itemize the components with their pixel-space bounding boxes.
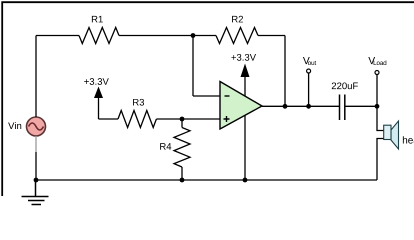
wire: R2 right lead to feedback corner — [258, 35, 285, 37]
node: VLoad junction — [375, 104, 380, 109]
wire: VLoad node down to speaker top terminal — [377, 106, 384, 130]
wire: horizontal into op-amp inverting input — [193, 95, 220, 97]
wire: R4 bottom to ground rail — [181, 167, 183, 180]
op-amp inverting input symbol — [225, 95, 230, 97]
resistor R2 — [216, 28, 258, 44]
power symbol +3.3V (op-amp supply) — [241, 64, 250, 97]
label Vin — [8, 122, 21, 129]
terminal VLoad — [375, 71, 379, 75]
wire: Vin bottom gray probe stub — [35, 136, 37, 152]
wire: +3.3V corner to R3 — [99, 118, 119, 120]
wire: junction down to R4 — [181, 119, 183, 128]
label +3.3V (left) — [84, 78, 109, 85]
label Vout — [303, 57, 316, 65]
node: junction of R1, R2 and inverting input — [191, 33, 196, 38]
label headphone — [403, 136, 414, 145]
wire: op-amp output to capacitor — [262, 105, 340, 107]
resistor R4 — [174, 128, 190, 168]
wire: feedback vertical down to output node — [284, 36, 286, 107]
node: feedback junction on output wire — [283, 104, 288, 109]
wire: R3 to non-inverting input — [156, 118, 220, 120]
label R1 — [92, 16, 103, 23]
source Vin — [27, 117, 46, 136]
label +3.3V (op-amp) — [231, 54, 256, 61]
wire: Vout terminal stub — [308, 73, 310, 106]
label R3 — [133, 99, 144, 106]
wire: top rail from R1 to feedback junction — [119, 35, 193, 37]
wire: junction to R2 — [193, 35, 216, 37]
node: op-amp ground junction on bottom rail — [243, 178, 248, 183]
wire: VLoad terminal stub — [376, 75, 378, 107]
wire: top rail left segment from left rail corner to R1 — [36, 35, 79, 37]
terminal Vout — [307, 69, 311, 73]
ground — [22, 180, 49, 205]
wire: vertical from junction down to inverting input level — [192, 36, 194, 97]
resistor R1 — [79, 28, 119, 44]
capacitor C1 plate right — [344, 95, 346, 121]
label VLoad — [368, 57, 386, 65]
label R2 — [232, 16, 243, 23]
node: junction R4 to bottom rail — [180, 178, 185, 183]
wire: bottom rail — [36, 179, 377, 181]
label R4 — [160, 143, 171, 150]
op-amp non-inverting input symbol — [224, 116, 230, 122]
wire: op-amp ground pin to bottom rail — [244, 115, 246, 180]
resistor R3 — [118, 111, 156, 128]
op-amp U1 — [220, 82, 262, 130]
node: ground junction — [34, 178, 39, 183]
label 220uF — [332, 82, 358, 89]
wire: left rail top (top rail corner down to Vin) — [35, 36, 37, 118]
power symbol +3.3V (left, feeding R3) — [94, 87, 103, 120]
wire: capacitor to VLoad corner — [345, 105, 377, 107]
capacitor C1 plate left — [339, 95, 341, 121]
wire: Vin to bottom rail — [35, 152, 37, 180]
speaker LS1 (headphone) — [384, 121, 399, 149]
node: Vout junction on output wire — [306, 104, 311, 109]
node: junction of R3, R4 and non-inverting input — [180, 117, 185, 122]
wire: speaker bottom terminal down to bottom rail — [377, 139, 384, 181]
